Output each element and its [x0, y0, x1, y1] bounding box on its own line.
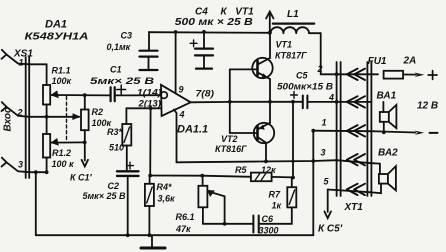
svg-text:КТ817Г: КТ817Г — [275, 51, 307, 61]
connector XS1 — [26, 57, 30, 178]
node +supply arrow up (K VT1) — [266, 12, 273, 33]
wire VT2 base — [230, 132, 256, 134]
wire pin1 row — [313, 131, 415, 236]
capacitor C6 — [253, 216, 258, 233]
svg-text:R6.1: R6.1 — [176, 212, 195, 222]
capacitor C5 — [291, 92, 308, 109]
transistor VT2 — [254, 102, 274, 162]
connector XT1 — [337, 62, 372, 196]
wire feedback row to R5 — [150, 176, 251, 177]
XT1 contact chevrons pin4 — [347, 96, 365, 107]
wire output to emitters and C5 — [230, 101, 303, 103]
svg-text:3: 3 — [18, 160, 23, 170]
node K C5' arrow — [324, 190, 331, 219]
node + supply — [428, 71, 437, 80]
svg-text:С3: С3 — [121, 31, 133, 41]
XT1 contact chevrons pin2 — [347, 69, 365, 80]
node K C1' arrow down — [82, 160, 88, 167]
svg-text:К С1′: К С1′ — [70, 173, 93, 183]
svg-text:R3*: R3* — [107, 127, 123, 137]
svg-text:4: 4 — [328, 93, 334, 103]
svg-text:500 мк × 25 В: 500 мк × 25 В — [175, 17, 253, 28]
svg-text:С1: С1 — [110, 65, 122, 75]
svg-text:ХТ1: ХТ1 — [344, 202, 364, 213]
wire pin2 to R2 wiper — [29, 113, 80, 120]
wire pin5 row — [328, 190, 372, 193]
mechanical coupling dashed — [66, 97, 68, 142]
resistor R2 (potentiometer) — [81, 95, 89, 160]
XT1 contact chevrons pin5 — [347, 184, 365, 195]
svg-text:VT1: VT1 — [235, 7, 254, 18]
svg-text:2: 2 — [17, 108, 23, 118]
node minus output — [415, 131, 438, 135]
svg-text:100к: 100к — [52, 76, 72, 86]
resistor R7 — [287, 178, 296, 208]
wire pin3 to BA2 — [371, 162, 380, 164]
svg-text:ВА1: ВА1 — [377, 91, 397, 102]
svg-text:1к: 1к — [272, 201, 282, 211]
resistor R3 — [122, 124, 131, 171]
wire C5 to pin4 XT1 — [307, 101, 371, 103]
wire R1.1 wiper to C1 — [50, 94, 110, 96]
ground — [141, 235, 165, 248]
svg-text:ВА2: ВА2 — [378, 148, 398, 159]
svg-text:4: 4 — [179, 110, 185, 120]
resistor R5 — [251, 173, 293, 182]
svg-text:2А: 2А — [403, 56, 417, 67]
svg-text:R1.1: R1.1 — [52, 66, 71, 76]
svg-text:2(13): 2(13) — [137, 98, 161, 108]
svg-text:VT1: VT1 — [276, 40, 293, 50]
svg-text:3,6к: 3,6к — [158, 194, 176, 204]
svg-text:1: 1 — [19, 58, 24, 68]
svg-text:12к: 12к — [261, 165, 276, 175]
svg-text:0,1мк: 0,1мк — [107, 42, 131, 52]
wire VT1 base — [230, 68, 256, 70]
capacitor C4 — [190, 32, 213, 69]
speaker BA2 — [371, 164, 396, 194]
svg-text:100 к: 100 к — [52, 159, 75, 169]
svg-text:С6: С6 — [262, 214, 274, 224]
svg-text:5мк× 25 В: 5мк× 25 В — [90, 76, 155, 86]
svg-text:12 В: 12 В — [417, 101, 438, 112]
svg-text:1: 1 — [322, 118, 327, 128]
svg-text:510: 510 — [109, 143, 124, 153]
wire output 7(8) — [191, 101, 230, 103]
capacitor C1 — [111, 85, 126, 101]
svg-text:К С5′: К С5′ — [318, 224, 343, 235]
svg-text:DA1: DA1 — [45, 19, 67, 31]
capacitor C2 — [117, 162, 139, 235]
resistor R1.2 (potentiometer) — [43, 134, 59, 172]
svg-text:Вход: Вход — [3, 107, 14, 132]
wire C6 to R7 — [259, 207, 292, 223]
svg-text:3: 3 — [321, 148, 326, 158]
svg-text:R2: R2 — [92, 107, 104, 117]
svg-text:К548УН1А: К548УН1А — [25, 32, 89, 43]
svg-text:К: К — [221, 7, 228, 18]
svg-text:R5: R5 — [235, 165, 247, 175]
wire op-amp input 2(13) — [126, 107, 161, 109]
wire R1.2 wiper to R2 bottom — [50, 141, 84, 143]
svg-text:500мк×15 В: 500мк×15 В — [277, 82, 334, 92]
svg-text:5мк× 25 В: 5мк× 25 В — [83, 191, 126, 201]
svg-text:R7: R7 — [269, 190, 281, 200]
svg-text:С4: С4 — [195, 7, 208, 18]
svg-text:FU1: FU1 — [368, 56, 387, 67]
wire bases vertical — [229, 69, 231, 133]
svg-text:R1.2: R1.2 — [52, 148, 71, 158]
wire pin2 row (L1 to FU1) — [321, 73, 378, 75]
inductor L1 — [271, 24, 321, 75]
op-amp DA1.1 — [161, 85, 191, 116]
svg-text:КТ816Г: КТ816Г — [215, 144, 247, 154]
wire feedback vertical from output — [292, 102, 294, 178]
wire pin3 row (gnd/VT2 collector) — [177, 160, 372, 163]
svg-text:3300: 3300 — [259, 226, 279, 236]
svg-text:С5: С5 — [296, 71, 308, 81]
svg-text:С2: С2 — [108, 181, 120, 191]
wire 2(13) to R3 — [125, 108, 127, 124]
wire pin3 to ground rail — [29, 172, 46, 235]
pin 2 of XS1 — [2, 102, 30, 117]
resistor R6.1 (potentiometer) — [198, 176, 224, 224]
wire pin1 to R1.1 — [29, 63, 46, 65]
wire bottom ground rail — [36, 234, 314, 236]
svg-text:47к: 47к — [175, 224, 191, 234]
svg-text:2: 2 — [317, 64, 323, 74]
svg-text:R4*: R4* — [157, 182, 173, 192]
wire op-amp pin 9 to rail — [175, 32, 177, 94]
XT1 contact chevrons pin3 — [347, 154, 365, 165]
svg-text:DA1.1: DA1.1 — [177, 124, 208, 136]
XT1 contact chevrons pin1 — [347, 125, 365, 136]
pin 1 of XS1 — [2, 50, 30, 65]
wire top rail — [149, 31, 270, 34]
fuse FU1 — [384, 71, 425, 79]
wire 2(13) branch to R4 — [149, 108, 151, 175]
svg-text:9: 9 — [179, 85, 184, 95]
wire op-amp pin4 — [174, 110, 177, 163]
resistor R1.1 (potentiometer) — [43, 64, 59, 134]
svg-text:1(14): 1(14) — [137, 88, 162, 98]
svg-text:7(8): 7(8) — [196, 89, 215, 99]
wire C1 to op-amp input 1(14) — [115, 94, 161, 96]
resistor R4 — [145, 176, 154, 236]
wire R6.1 to C6 — [203, 223, 253, 225]
svg-text:VT2: VT2 — [221, 134, 238, 144]
capacitor C3 — [140, 32, 158, 70]
transistor VT1 — [252, 33, 272, 102]
svg-text:L1: L1 — [287, 9, 299, 20]
speaker BA1 — [380, 102, 397, 132]
pin 3 of XS1 — [2, 158, 30, 173]
